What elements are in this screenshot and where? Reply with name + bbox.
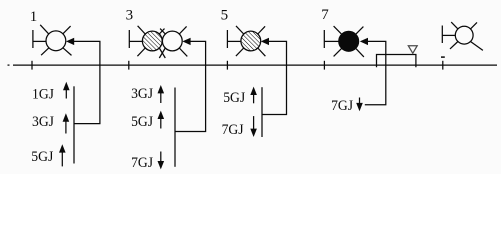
rays circle 1 — [40, 25, 49, 34]
stub wire 1 — [33, 40, 46, 42]
arrowhead into circle 3b — [182, 38, 190, 45]
rays circles 3 — [138, 26, 146, 34]
activity circle 3a (hatched) — [142, 31, 162, 51]
rays circle 5 — [236, 26, 244, 34]
level triangle — [408, 46, 417, 54]
bracket line 1 — [73, 86, 75, 163]
storage rectangle — [377, 55, 416, 68]
activity circle 3b — [162, 31, 182, 51]
axis tick t1 — [31, 61, 33, 70]
stub wire 5 — [227, 40, 241, 42]
svg-text:3: 3 — [126, 8, 134, 24]
arrowhead into circle 1 — [66, 38, 74, 45]
activity circle 7 (filled) — [339, 31, 359, 51]
up arrow 5GJ (col 3) — [253, 93, 255, 103]
svg-text:7GJ: 7GJ — [222, 122, 244, 138]
svg-text:1: 1 — [30, 9, 38, 25]
svg-text:5GJ: 5GJ — [131, 114, 153, 130]
stub wire 9 — [442, 34, 455, 36]
arrowhead into circle 5 — [261, 38, 269, 45]
svg-text:1GJ: 1GJ — [32, 87, 54, 103]
svg-text:7: 7 — [321, 7, 329, 23]
axis tick t3 — [128, 61, 130, 70]
time axis — [13, 64, 497, 66]
arrow wire 1 — [74, 41, 100, 123]
axis tick t9 — [442, 61, 444, 70]
down arrow 7GJ (col 3) — [253, 116, 255, 130]
start tick node 9 — [441, 26, 443, 44]
arrow wire 5 — [262, 41, 287, 114]
activity circle 5 (hatched) — [241, 31, 261, 51]
axis tick t7 — [323, 61, 325, 70]
rays circle 9 — [451, 22, 458, 29]
arrow wire 3 — [175, 41, 206, 131]
arrow wire 7 — [365, 41, 386, 104]
activity circle 9 — [455, 26, 473, 44]
up arrow 5GJ (col 2) — [160, 118, 162, 129]
down arrow 7GJ (col 2) — [160, 152, 162, 163]
up arrow 5GJ (col 1) — [61, 152, 63, 166]
svg-text:5: 5 — [221, 8, 229, 24]
axis leading dot — [8, 64, 10, 66]
svg-text:5GJ: 5GJ — [223, 90, 245, 106]
start tick node 3 — [128, 30, 130, 48]
svg-text:7GJ: 7GJ — [131, 155, 153, 171]
bracket line 5 — [261, 87, 263, 137]
stub wire 7 — [324, 40, 339, 42]
svg-text:7GJ: 7GJ — [331, 98, 353, 114]
bracket line 3 — [174, 88, 176, 167]
stub wire 3 — [129, 40, 142, 42]
arrowhead into circle 7 — [360, 38, 368, 45]
activity circle 1 — [46, 31, 66, 51]
svg-text:5GJ: 5GJ — [31, 149, 53, 165]
start tick node 1 — [32, 30, 34, 48]
up arrow 1GJ — [65, 89, 67, 99]
start tick node 5 — [226, 30, 228, 48]
start tick node 7 — [323, 30, 325, 48]
up arrow 3GJ (col 1) — [65, 120, 67, 134]
svg-text:3GJ: 3GJ — [32, 114, 54, 130]
rays circle 7 — [334, 26, 342, 34]
down arrow 7GJ (col 4) — [359, 98, 361, 105]
up arrow 3GJ (col 2) — [160, 92, 162, 103]
axis tick t5 — [226, 61, 228, 70]
axis dash mark above tick t9 — [441, 56, 445, 58]
svg-text:3GJ: 3GJ — [131, 86, 153, 102]
